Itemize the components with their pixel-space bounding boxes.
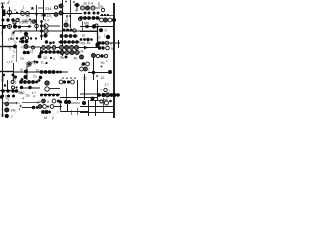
svg-text:): )	[109, 89, 110, 93]
wire vertical x66	[66, 88, 68, 100]
junction L1	[24, 70, 28, 74]
junction J145	[110, 93, 114, 97]
wire horizontal y102	[22, 102, 40, 104]
junction J79	[59, 40, 63, 44]
wire horizontal bus y13	[5, 13, 82, 15]
junction big node	[92, 24, 96, 28]
junction J28	[107, 14, 109, 16]
junction J83	[75, 40, 79, 44]
svg-text:=: =	[101, 89, 103, 93]
wire horizontal y46 left	[0, 46, 13, 48]
junction dot r2c0	[19, 41, 21, 43]
wire vertical x40	[40, 47, 42, 56]
transistor Qtop	[54, 6, 57, 9]
transistor Q12	[44, 29, 48, 33]
svg-text:(l): (l)	[82, 34, 85, 38]
transistor Q1b	[16, 18, 19, 21]
transistor Q36	[70, 50, 74, 54]
junction node C	[24, 32, 28, 36]
junction J48	[66, 29, 69, 32]
junction J37	[20, 38, 22, 40]
wire horizontal y94	[40, 94, 60, 96]
junction speck top2	[73, 1, 75, 3]
junction T1	[32, 106, 35, 109]
svg-text:0.: 0.	[53, 57, 56, 61]
svg-text:1k: 1k	[36, 69, 40, 73]
transistor Q42	[80, 67, 84, 71]
junction top x97	[95, 43, 99, 47]
transistor Q1d	[26, 12, 30, 16]
svg-text:(l: (l	[52, 116, 54, 120]
wire horizontal y71 left	[0, 71, 14, 73]
junction J81	[67, 40, 71, 44]
transistor Q35	[65, 50, 69, 54]
junction J136	[44, 94, 47, 97]
svg-text:2:: 2:	[12, 55, 15, 59]
junction W2	[28, 86, 31, 89]
wire horizontal y15 right	[100, 15, 113, 17]
junction G blob	[82, 62, 85, 65]
svg-text:1?: 1?	[105, 83, 109, 87]
junction U3w	[67, 100, 71, 104]
junction J19	[93, 12, 96, 15]
transistor Q43	[84, 67, 88, 71]
wire vertical x88	[88, 100, 90, 116]
junction K3	[21, 78, 24, 81]
wire horizontal y103 mid	[70, 102, 80, 104]
junction inside Q8	[9, 26, 11, 28]
wire stub x77 bottom	[77, 108, 79, 115]
transistor Q27a	[32, 46, 35, 49]
junction J53	[73, 34, 77, 38]
junction J41	[40, 25, 43, 28]
transistor Qx74	[73, 29, 76, 32]
svg-text:4: 4	[33, 95, 35, 99]
junction J122	[11, 89, 15, 93]
svg-text:2a: 2a	[26, 94, 30, 98]
svg-text:T: T	[75, 10, 77, 14]
junction row27 d	[18, 25, 21, 28]
wire vertical x77 stub	[76, 5, 78, 11]
junction y57	[65, 56, 68, 59]
wire vertical x67 bottom	[67, 104, 69, 112]
transistor Q39b	[96, 54, 99, 57]
junction J26	[101, 14, 103, 16]
junction u1	[66, 15, 68, 17]
capacitor C1	[2, 10, 5, 17]
svg-text:-6: -6	[40, 14, 43, 18]
junction dot y43	[49, 42, 52, 45]
svg-text:ll: ll	[69, 24, 71, 28]
wire horizontal y5 stub	[74, 4, 80, 6]
transistor Q39c	[104, 54, 107, 57]
junction J123	[15, 89, 19, 93]
junction J108	[62, 77, 64, 79]
junction row56	[100, 54, 104, 58]
junction J25	[96, 16, 100, 20]
junction J144	[101, 93, 105, 97]
junction J125	[7, 95, 10, 98]
svg-text:l): l)	[45, 26, 47, 30]
junction J102	[44, 70, 48, 74]
svg-text:01R5: 01R5	[19, 21, 28, 25]
junction mid x40	[39, 52, 42, 55]
wire horizontal y106 mid	[54, 106, 62, 108]
junction node F	[13, 45, 17, 49]
junction H2	[52, 41, 54, 43]
transistor Q7	[101, 8, 104, 11]
transistor Q6	[91, 6, 95, 10]
transistor Q46	[12, 86, 15, 89]
junction on rail low	[0, 95, 3, 99]
transistor Q53	[42, 99, 46, 103]
junction J52	[69, 34, 73, 38]
junction J86	[98, 41, 101, 44]
wire horizontal y111	[60, 111, 88, 113]
wire horizontal bus y72 right	[88, 72, 110, 74]
junction J155	[48, 111, 51, 114]
svg-text:l)1: l)1	[26, 14, 30, 18]
transistor Q52b	[5, 108, 9, 112]
transistor Q1	[7, 10, 11, 14]
transistor Q55a	[38, 105, 42, 109]
transistor Q3	[59, 11, 63, 15]
junction U2w	[64, 100, 68, 104]
junction K2	[14, 76, 17, 79]
junction J111	[74, 77, 76, 79]
junction J146	[112, 93, 116, 97]
junction V1	[82, 101, 86, 105]
junction row20 c	[11, 18, 14, 21]
svg-text:>: >	[18, 102, 20, 106]
junction J124	[1, 95, 4, 98]
svg-text:0l: 0l	[14, 21, 17, 25]
wire horizontal y31 right	[80, 31, 98, 33]
transistor Q41b	[92, 54, 96, 58]
transistor Q39	[106, 46, 110, 50]
svg-text:2o: 2o	[33, 75, 37, 79]
wire vertical bus x62	[62, 0, 64, 56]
junction on bus y13	[16, 12, 18, 14]
wire vertical x27	[26, 66, 28, 80]
wire vertical x13	[13, 63, 15, 80]
junction node B	[13, 24, 17, 28]
node starburst	[86, 25, 89, 28]
wire dash y8	[38, 7, 43, 9]
transistor Q41	[86, 62, 90, 66]
transistor Q49	[59, 80, 63, 84]
junction J58	[90, 38, 93, 41]
junction J137	[48, 94, 51, 97]
junction dot 51	[50, 57, 52, 59]
junction bus x62	[61, 12, 63, 14]
junction small r3c5	[101, 66, 103, 68]
junction J75	[48, 50, 52, 54]
svg-text:*)2: *)2	[20, 91, 25, 95]
transistor Q26	[24, 45, 28, 49]
wire left supply rail	[2, 3, 4, 117]
transistor Q50	[71, 80, 75, 84]
svg-text:10: 10	[43, 56, 47, 60]
junction J8	[29, 19, 31, 21]
wire horizontal y25 left	[0, 25, 8, 27]
junction K0	[3, 74, 5, 76]
junction U1w	[59, 100, 62, 103]
transistor Q30	[59, 45, 63, 49]
transistor Q41a	[80, 55, 84, 59]
svg-text:2: 2	[20, 30, 22, 34]
junction J74	[44, 50, 48, 54]
wire horizontal bus y94 mid	[80, 93, 98, 95]
svg-text:24(: 24(	[11, 109, 17, 113]
junction J17	[84, 12, 87, 15]
junction row20 a	[2, 19, 5, 22]
svg-text:(l: (l	[99, 36, 101, 40]
junction J40	[40, 20, 43, 23]
junction end x40	[38, 55, 42, 59]
wire vertical x7	[7, 80, 9, 90]
junction row20 b	[6, 18, 9, 21]
junction 6 blob	[42, 13, 45, 16]
junction J38	[30, 37, 32, 39]
junction J130	[31, 80, 35, 84]
junction node E0	[99, 28, 103, 32]
junction J42	[40, 30, 43, 33]
wire vertical x60 bottom	[60, 104, 62, 110]
wire horizontal y107 left	[22, 107, 34, 109]
wire vertical x77 lower	[77, 80, 79, 100]
wire horizontal y36	[60, 35, 78, 37]
wire vertical x118	[118, 40, 120, 48]
transistor Q13	[64, 23, 68, 27]
junction J101	[40, 70, 44, 74]
transistor Q10	[32, 20, 36, 24]
junction on right rail	[112, 18, 116, 22]
transistor Q48	[45, 87, 49, 91]
wire vertical bus x36	[36, 5, 38, 31]
wire vertical bus x70	[70, 0, 72, 28]
transistor Q21	[108, 18, 112, 22]
junction inside Q40	[28, 63, 31, 66]
svg-text:b: b	[62, 56, 64, 60]
junction J21	[79, 16, 83, 20]
transistor Q47	[45, 81, 49, 85]
wire vertical bus x41	[41, 20, 43, 40]
junction row27 a	[2, 25, 6, 29]
wire horizontal y42	[58, 41, 80, 43]
junction J109	[66, 77, 68, 79]
junction dot 97	[96, 75, 98, 77]
junction J23	[87, 16, 91, 20]
junction dot r5c2	[47, 106, 49, 108]
transistor Q29	[52, 46, 56, 50]
svg-text:o|: o|	[20, 9, 23, 13]
junction O1	[108, 70, 112, 74]
svg-text:?: ?	[1, 79, 3, 83]
junction M1	[45, 62, 47, 64]
svg-text:o|: o|	[65, 19, 68, 23]
junction node D	[43, 33, 47, 37]
wire stub x99	[98, 2, 100, 7]
svg-text:;: ;	[53, 111, 54, 115]
junction J27	[104, 14, 106, 16]
wire horizontal y88 mid	[49, 88, 60, 90]
junction J121	[6, 89, 10, 93]
junction J22	[83, 16, 87, 20]
junction Yl dot	[33, 60, 35, 62]
transistor Q27	[42, 46, 46, 50]
svg-text:A#: A#	[1, 2, 5, 6]
svg-text:R9: R9	[81, 42, 86, 46]
junction J103	[48, 70, 52, 74]
wire horizontal y52	[40, 51, 80, 53]
junction J127	[19, 80, 23, 84]
junction pre Q47	[38, 79, 41, 82]
junction J39	[35, 37, 37, 39]
junction K1	[12, 74, 15, 77]
svg-text:6: 6	[15, 81, 17, 85]
transistor Q28	[47, 46, 51, 50]
junction J36	[16, 37, 18, 39]
junction J153	[41, 110, 45, 114]
junction J18	[88, 12, 91, 15]
junction J20	[97, 12, 100, 15]
wire horizontal y106 right	[80, 106, 113, 108]
junction dot r4c0	[4, 84, 6, 86]
junction N1	[59, 71, 62, 74]
wire horizontal bus y72 left	[14, 71, 69, 73]
wire right supply rail	[113, 3, 115, 118]
junction J49	[70, 29, 73, 32]
svg-text:4: 4	[22, 97, 24, 101]
transistor Q37	[75, 50, 79, 54]
junction D blob	[21, 40, 25, 44]
junction J6	[32, 7, 34, 9]
junction J154	[44, 110, 48, 114]
junction J51	[64, 34, 68, 38]
junction P1	[15, 86, 17, 88]
svg-text:4k: 4k	[87, 41, 91, 45]
wire horizontal y43 right	[98, 42, 120, 44]
junction Q11 base	[44, 25, 46, 27]
junction L2	[24, 75, 28, 79]
junction J110	[70, 77, 72, 79]
junction r5c2 right	[57, 100, 60, 103]
junction J140	[63, 80, 66, 83]
junction J104	[52, 70, 56, 74]
transistor Q20	[103, 18, 107, 22]
junction J73	[40, 50, 44, 54]
wire horizontal y100	[90, 100, 100, 102]
transistor Q9	[13, 21, 16, 24]
junction dot 34	[34, 21, 36, 23]
wire vertical x103	[103, 98, 105, 113]
junction J57	[86, 38, 89, 41]
junction J120	[1, 89, 5, 93]
svg-text:(4L(: (4L(	[8, 37, 15, 41]
wire horizontal y97	[60, 97, 97, 99]
junction J76	[52, 50, 56, 54]
junction J143	[97, 93, 101, 97]
wire vertical x95	[95, 100, 97, 116]
wire horizontal y88	[20, 87, 40, 89]
transistor Q11	[44, 24, 48, 28]
junction on x93	[92, 71, 95, 74]
transistor Q57	[100, 100, 103, 103]
junction on rail top	[1, 6, 4, 9]
junction row38 a	[22, 37, 25, 40]
wire vertical x82	[82, 21, 84, 31]
svg-text:2: 2	[11, 115, 13, 119]
svg-text:B:: B:	[101, 5, 104, 9]
wire horizontal y26 left	[16, 26, 30, 28]
junction J105	[56, 71, 59, 74]
transistor Q52a	[5, 102, 9, 106]
transistor Q32	[69, 45, 73, 49]
junction S2	[5, 114, 9, 118]
node cross mark r5c0	[15, 102, 18, 105]
wire horizontal y103 left	[3, 102, 16, 104]
svg-text:1.: 1.	[13, 50, 16, 54]
junction r5c5 dot	[109, 100, 112, 103]
transistor Qrow38	[25, 36, 28, 39]
svg-text:L: L	[1, 31, 3, 35]
svg-text:%:: %:	[101, 61, 105, 65]
junction G2	[26, 51, 30, 55]
junction R1w	[91, 97, 95, 101]
svg-text:1k 0.4: 1k 0.4	[83, 2, 93, 6]
transistor Q31	[64, 45, 68, 49]
wire horizontal y47 left-mid	[28, 46, 40, 48]
transistor Qx96	[95, 24, 98, 27]
svg-text:0.4: 0.4	[44, 19, 49, 23]
transistor Q40	[27, 62, 31, 66]
wire vertical x16	[16, 48, 18, 62]
wire horizontal y26 right	[80, 26, 113, 28]
junction r1c0 dot	[12, 31, 14, 33]
transistor Q38	[105, 41, 109, 45]
junction J139	[56, 94, 59, 97]
junction node E	[106, 35, 110, 39]
wire stub x71 bottom	[71, 110, 73, 115]
junction J126	[12, 95, 15, 98]
transistor Q54	[52, 99, 56, 103]
transistor Q10b	[35, 24, 39, 28]
transistor Q33	[74, 45, 78, 49]
junction J77	[56, 50, 60, 54]
transistor Q51a	[104, 88, 107, 91]
svg-text:*': *'	[106, 60, 108, 64]
svg-text:12: 12	[83, 77, 87, 81]
svg-text:5': 5'	[111, 47, 114, 51]
wire vertical through Q1	[9, 7, 11, 17]
wire horizontal bus y47	[40, 47, 98, 49]
wire horizontal y31 mid	[48, 30, 60, 32]
junction J55	[80, 38, 83, 41]
transistor Q3b	[78, 17, 81, 20]
svg-text:<+: <+	[7, 61, 11, 65]
svg-text:1L: 1L	[41, 61, 45, 65]
svg-text:..: ..	[13, 67, 15, 71]
junction speck top1	[65, 1, 67, 3]
junction J82	[71, 40, 75, 44]
junction J87	[101, 41, 104, 44]
junction J141	[67, 80, 70, 83]
transistor Q1c	[21, 12, 25, 16]
wire vertical bus x97 upper	[97, 26, 99, 47]
svg-text:#6: #6	[74, 57, 78, 61]
junction J131	[35, 81, 38, 84]
